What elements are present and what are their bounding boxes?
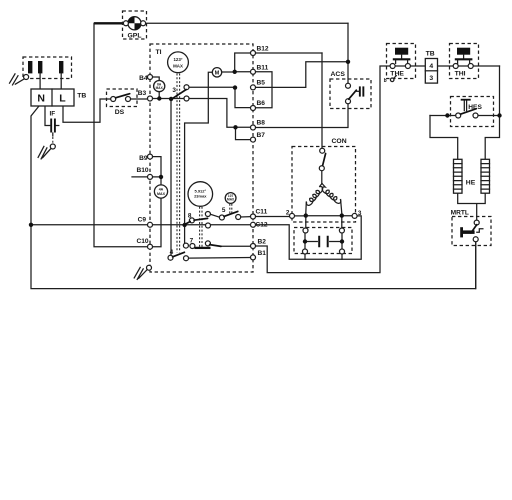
svg-text:L: L xyxy=(59,93,66,105)
svg-text:HE: HE xyxy=(466,179,476,186)
svg-text:3: 3 xyxy=(358,210,362,217)
svg-text:7: 7 xyxy=(190,237,194,244)
svg-text:B11: B11 xyxy=(257,64,269,71)
svg-text:THE: THE xyxy=(390,71,404,78)
svg-text:B7: B7 xyxy=(257,132,266,139)
svg-text:TI: TI xyxy=(156,49,162,56)
svg-text:TB: TB xyxy=(77,93,86,100)
svg-text:C9: C9 xyxy=(138,217,147,224)
svg-text:B10: B10 xyxy=(136,167,148,174)
svg-text:HES: HES xyxy=(468,104,482,111)
svg-text:B3: B3 xyxy=(138,90,147,97)
svg-text:B9: B9 xyxy=(139,155,148,162)
svg-text:B4: B4 xyxy=(139,75,148,82)
svg-text:B6: B6 xyxy=(257,100,266,107)
svg-text:B12: B12 xyxy=(257,46,269,53)
svg-text:MRTL: MRTL xyxy=(451,209,469,216)
svg-text:N: N xyxy=(37,93,45,105)
svg-text:TB: TB xyxy=(426,51,435,58)
svg-text:CON: CON xyxy=(332,138,347,145)
svg-text:C10: C10 xyxy=(136,238,148,245)
svg-text:23max: 23max xyxy=(194,193,207,198)
svg-text:MAX: MAX xyxy=(157,192,166,196)
svg-text:M: M xyxy=(215,71,220,77)
svg-text:8: 8 xyxy=(188,212,192,219)
svg-text:ACS: ACS xyxy=(331,71,346,78)
svg-text:B5: B5 xyxy=(257,80,266,87)
svg-text:B2: B2 xyxy=(258,238,267,245)
svg-text:MAX: MAX xyxy=(173,63,183,68)
svg-text:GPL: GPL xyxy=(128,33,142,40)
svg-text:C11: C11 xyxy=(256,209,268,216)
svg-text:B1: B1 xyxy=(258,250,267,257)
svg-text:MAX: MAX xyxy=(227,198,235,202)
svg-text:MAX: MAX xyxy=(156,86,164,90)
svg-text:b: b xyxy=(384,78,387,84)
svg-text:DS: DS xyxy=(115,109,125,116)
svg-text:2: 2 xyxy=(286,210,290,217)
svg-text:4: 4 xyxy=(429,63,433,70)
svg-text:THI: THI xyxy=(455,71,466,78)
svg-text:3: 3 xyxy=(429,75,433,82)
svg-text:123°: 123° xyxy=(173,57,182,62)
svg-text:4: 4 xyxy=(170,249,174,256)
svg-text:3: 3 xyxy=(172,87,176,94)
svg-text:B8: B8 xyxy=(257,120,266,127)
svg-text:5: 5 xyxy=(222,207,226,214)
svg-text:C12: C12 xyxy=(256,222,268,229)
svg-text:IF: IF xyxy=(49,110,55,117)
